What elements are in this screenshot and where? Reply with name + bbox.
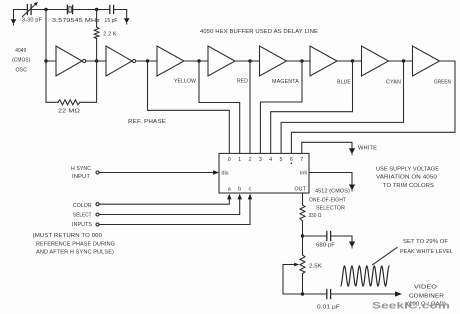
buffer U3c MAGENTA (260, 46, 287, 76)
svg-text:COLOR: COLOR (73, 203, 92, 209)
svg-text:2.5K: 2.5K (309, 264, 322, 270)
svg-text:4049: 4049 (15, 48, 26, 54)
svg-text:SELECTOR: SELECTOR (316, 206, 345, 212)
svg-text:4050 HEX BUFFER USED AS DELAY: 4050 HEX BUFFER USED AS DELAY LINE (200, 29, 318, 35)
svg-text:AND AFTER H SYNC PULSE): AND AFTER H SYNC PULSE) (36, 250, 114, 256)
svg-text:3-30 pF: 3-30 pF (22, 17, 43, 23)
sine wave (burst waveform) (341, 266, 389, 286)
svg-text:c: c (249, 187, 252, 193)
capacitor C2 15 pF (109, 6, 111, 14)
wire MAGENTA to pin 3 (260, 61, 302, 153)
wire (86, 60, 106, 62)
svg-text:0: 0 (228, 157, 231, 163)
buffer U3f GREEN (413, 46, 440, 76)
wire REF PHASE to pin 0 (148, 61, 230, 153)
svg-text:5: 5 (280, 157, 283, 163)
svg-text:4: 4 (269, 157, 272, 163)
svg-text:VARIATION ON 4050: VARIATION ON 4050 (376, 175, 437, 181)
supply arrow WHITE (349, 148, 355, 155)
svg-text:RED: RED (237, 79, 248, 85)
svg-text:a: a (228, 187, 231, 193)
svg-text:680 pF: 680 pF (316, 243, 336, 249)
wire COLOR select a (99, 199, 229, 204)
supply arrow (680 pF) (349, 242, 355, 249)
wire YELLOW to pin 1 (199, 61, 240, 153)
buffer U3b RED (208, 46, 235, 76)
svg-text:inh: inh (300, 171, 308, 177)
node inv2 output (146, 59, 149, 62)
svg-text:ONE-OF-EIGHT: ONE-OF-EIGHT (309, 198, 347, 204)
svg-text:0.01 μF: 0.01 μF (317, 305, 341, 311)
svg-text:REF. PHASE: REF. PHASE (128, 119, 166, 125)
crystal Y1 3.579545 MHz (66, 5, 68, 13)
svg-text:2: 2 (248, 157, 251, 163)
svg-text:6: 6 (290, 157, 293, 163)
svg-text:3.579545 MHz: 3.579545 MHz (52, 18, 100, 24)
svg-text:TO TRIM COLORS: TO TRIM COLORS (383, 183, 434, 189)
node inv1 output (95, 59, 98, 62)
svg-text:SELECT: SELECT (73, 213, 92, 219)
svg-text:VIDEO: VIDEO (414, 285, 437, 291)
svg-text:MAGENTA: MAGENTA (272, 79, 299, 85)
wire H SYNC input (99, 172, 214, 174)
wire SELECT b (99, 199, 240, 215)
inverter U1b (106, 46, 132, 76)
node after Y1 (95, 8, 98, 11)
wire to ground right (114, 10, 127, 19)
capacitor C3 680 pF (303, 235, 327, 237)
potentiometer R4 2.5K (302, 236, 304, 255)
wire (136, 60, 157, 62)
node inv1 input (44, 59, 47, 62)
buffer U3d BLUE (310, 46, 337, 76)
svg-text:(CMOS): (CMOS) (12, 58, 30, 64)
svg-text:330 Ω: 330 Ω (309, 213, 322, 219)
node A (301, 234, 304, 237)
svg-text:PEAK WHITE LEVEL: PEAK WHITE LEVEL (400, 249, 453, 255)
svg-text:BLUE: BLUE (337, 80, 351, 86)
wire inh to supply arrow (309, 173, 352, 185)
svg-text:b: b (238, 187, 241, 193)
node B (301, 292, 304, 295)
svg-text:YELLOW: YELLOW (174, 79, 197, 85)
svg-text:INPUT: INPUT (72, 174, 91, 180)
wire (31, 9, 67, 11)
wire top rail left (14, 10, 27, 20)
arrow to video combiner (395, 291, 402, 296)
svg-text:H SYNC: H SYNC (71, 166, 91, 172)
svg-text:15 pF: 15 pF (105, 18, 119, 24)
svg-text:SET TO 29% OF: SET TO 29% OF (403, 239, 449, 245)
resistor R2 22 MΩ feedback (46, 61, 58, 102)
svg-text:22 MΩ: 22 MΩ (58, 109, 80, 115)
svg-text:dis: dis (222, 171, 229, 177)
buffer U3e CYAN (362, 46, 389, 76)
ground G2 (124, 18, 130, 24)
wire inverter input (46, 10, 56, 62)
wire CYAN to pin 5 (281, 61, 403, 153)
svg-text:(MUST RETURN TO 000: (MUST RETURN TO 000 (33, 233, 103, 239)
svg-text:1: 1 (238, 157, 241, 163)
svg-text:4512 (CMOS): 4512 (CMOS) (315, 189, 350, 195)
wire OUT / resistor R3 330 Ω (302, 193, 304, 205)
buffer U3a YELLOW (157, 46, 184, 76)
capacitor C4 0.01 μF (303, 293, 327, 295)
resistor R1 2.2K (96, 10, 98, 28)
wire GREEN to pin 6 (291, 61, 455, 153)
capacitor C1 3-30 pF (variable) (26, 5, 28, 15)
svg-text:WHITE: WHITE (358, 146, 377, 152)
wire RED to pin 2 (249, 61, 251, 153)
svg-text:OSC: OSC (16, 67, 28, 73)
svg-text:3: 3 (259, 157, 262, 163)
svg-text:COMBINER: COMBINER (409, 294, 444, 300)
svg-text:GREEN: GREEN (434, 80, 451, 86)
IC U2 4512 one-of-eight selector (219, 153, 309, 193)
svg-text:INPUTS: INPUTS (72, 222, 92, 228)
wire (73, 9, 110, 11)
svg-text:CYAN: CYAN (386, 80, 401, 86)
pointer line (373, 248, 398, 265)
wire BLUE to pin 4 (271, 61, 353, 153)
pot wiper (283, 264, 295, 266)
inverter U1a (56, 46, 82, 76)
wire INPUTS c (99, 199, 250, 225)
svg-text:OUT: OUT (294, 187, 306, 193)
pin 6 dot (291, 163, 293, 165)
svg-text:SeekIC.com: SeekIC.com (372, 301, 450, 312)
svg-text:USE SUPPLY VOLTAGE: USE SUPPLY VOLTAGE (376, 167, 439, 173)
svg-text:7: 7 (300, 157, 303, 163)
svg-text:2.2 K: 2.2 K (103, 32, 117, 38)
wire WHITE supply to pin 7 (302, 142, 352, 153)
node after C1 (44, 8, 47, 11)
ground G1 (11, 19, 17, 25)
svg-text:REFERENCE PHASE DURING: REFERENCE PHASE DURING (36, 242, 115, 248)
